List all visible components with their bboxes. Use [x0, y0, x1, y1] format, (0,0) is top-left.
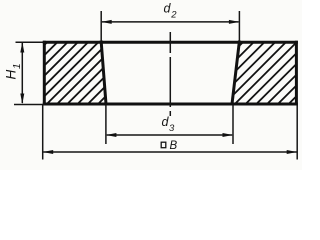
- centerline segment 1: [169, 32, 171, 53]
- d2 left extension line: [100, 11, 102, 41]
- B left arrow: [43, 150, 54, 154]
- B left extension line: [42, 105, 44, 160]
- H1 bottom extension line: [14, 104, 45, 106]
- H1 top extension line: [16, 41, 46, 43]
- B right arrow: [287, 150, 298, 154]
- svg-text:H: H: [4, 70, 19, 80]
- d3 left arrow: [106, 133, 117, 137]
- B right extension line: [296, 105, 298, 160]
- d3 dimension line: [107, 134, 233, 136]
- left taper edge: [101, 42, 106, 104]
- right edge: [295, 42, 298, 104]
- label H1 (rotated): [4, 63, 24, 79]
- svg-text:B: B: [170, 140, 178, 152]
- d3 left extension line: [105, 105, 107, 144]
- H1 dimension line: [21, 43, 23, 103]
- d2 right extension line: [238, 11, 240, 41]
- thin lines: [14, 11, 297, 160]
- svg-text:3: 3: [169, 123, 175, 134]
- label square-B: [161, 140, 177, 152]
- H1 top arrow: [20, 42, 24, 53]
- H1 bottom arrow: [20, 94, 24, 105]
- label d2: [164, 2, 178, 21]
- d3 right extension line: [232, 105, 234, 144]
- label d3: [162, 115, 176, 134]
- d2 left arrow: [101, 20, 112, 24]
- arrowheads: [20, 20, 297, 154]
- right taper edge: [232, 42, 239, 104]
- d2 right arrow: [229, 20, 240, 24]
- B dimension line: [43, 151, 296, 153]
- centerline segment 2: [169, 57, 171, 107]
- svg-text:2: 2: [170, 10, 177, 21]
- top edge: [44, 41, 296, 44]
- centerline segment 3: [169, 111, 171, 116]
- left edge: [43, 42, 46, 104]
- bottom edge: [44, 103, 296, 106]
- d3 right arrow: [223, 133, 234, 137]
- part outline: [44, 42, 296, 104]
- svg-text:1: 1: [12, 63, 23, 69]
- hatching left block: [0, 30, 172, 110]
- svg-text:d: d: [164, 2, 172, 16]
- d2 dimension line: [102, 21, 239, 23]
- hatching right block: [175, 30, 320, 110]
